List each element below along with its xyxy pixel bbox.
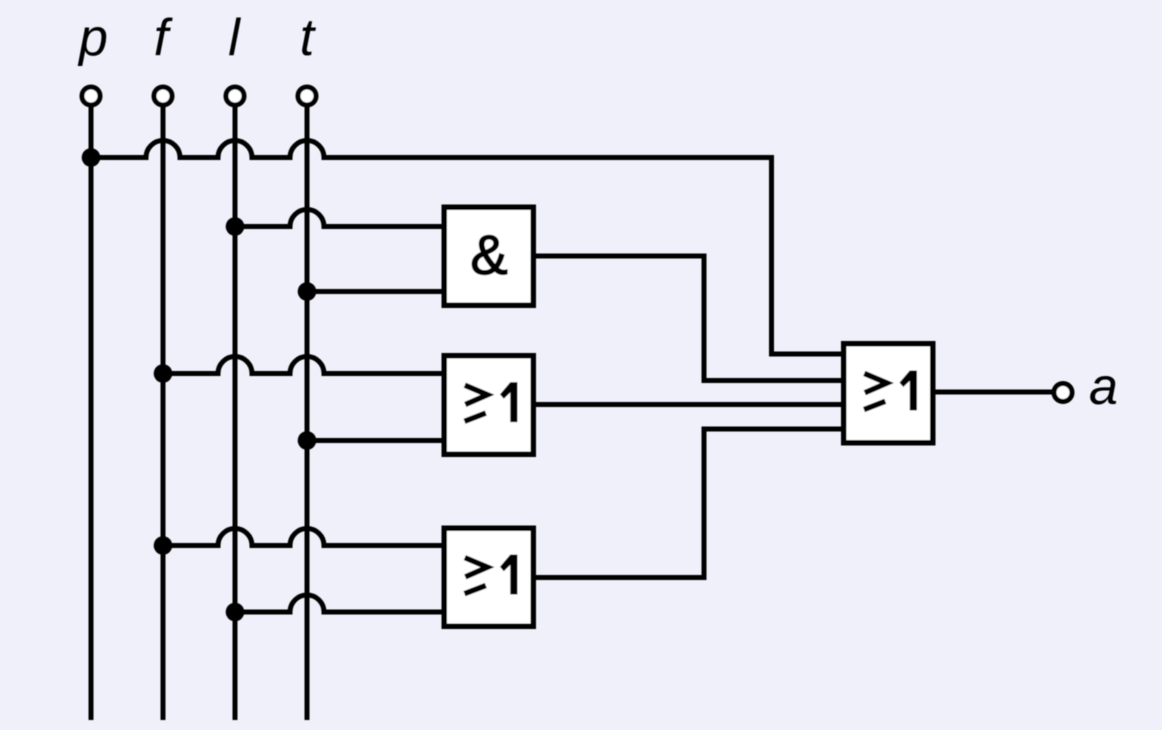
svg-text:a: a (1089, 358, 1118, 416)
junction on f (154, 536, 173, 555)
wire f vertical (161, 107, 166, 721)
junction on l (226, 603, 245, 622)
wire l to U3 input 2 (hop over t) (235, 595, 442, 612)
junction on p (82, 148, 101, 167)
wire U1 output to U4 input 2 (536, 256, 841, 381)
svg-text:p: p (77, 9, 108, 67)
output terminal a (1054, 384, 1072, 402)
wire p vertical (89, 107, 94, 721)
wire t vertical (305, 107, 310, 721)
wire U4 output to terminal a (936, 390, 1055, 395)
junction on f (154, 364, 173, 383)
wire f to U3 input 1 (hops over l,t) (163, 529, 442, 546)
wire p to U4 input 1 (hops over f,l,t) (91, 141, 841, 355)
wire l vertical (233, 107, 238, 721)
wire t to U1 input 2 (307, 289, 442, 294)
input terminal f (154, 87, 172, 105)
wire f to U2 input 1 (hops over l,t) (163, 357, 442, 374)
wire t to U2 input 2 (307, 438, 442, 443)
wire U2 output to U4 input 3 (536, 402, 841, 407)
svg-text:&: & (470, 223, 507, 286)
junction on t (298, 282, 317, 301)
input terminal l (226, 87, 244, 105)
junction on l (226, 217, 245, 236)
svg-text:l: l (228, 9, 241, 67)
wire U3 output to U4 input 4 (536, 429, 841, 578)
OR gate U3 (444, 528, 533, 626)
OR gate U4 (844, 344, 933, 443)
input terminal p (82, 87, 100, 105)
wire l to U1 input 1 (hop over t) (235, 210, 442, 227)
AND gate U1 (444, 207, 533, 305)
input terminal t (298, 87, 316, 105)
junction on t (298, 431, 317, 450)
svg-text:t: t (300, 9, 317, 67)
OR gate U2 (444, 356, 533, 455)
